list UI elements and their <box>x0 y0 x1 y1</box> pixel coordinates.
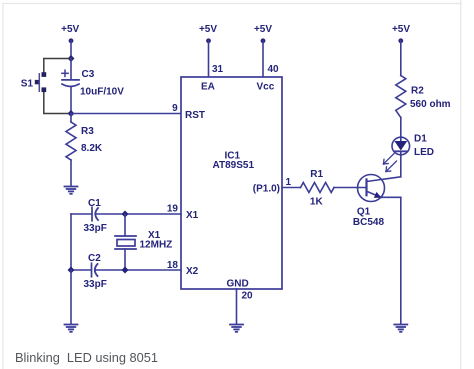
capacitor C2 <box>71 253 107 290</box>
resistor R1 <box>301 169 335 208</box>
svg-text:R3: R3 <box>81 126 94 137</box>
svg-text:Q1: Q1 <box>357 206 371 217</box>
wire GND pin 20 to ground <box>236 289 238 324</box>
svg-text:+5V: +5V <box>199 24 217 35</box>
node X1 (crystal top junction) <box>122 211 129 218</box>
power +5V (R2 rail) <box>392 24 410 43</box>
wire R1 to Q1 base <box>334 187 367 189</box>
wire oscillator left rail <box>70 214 72 270</box>
wire +5V to Vcc pin <box>262 41 264 78</box>
ground (oscillator rail) <box>65 325 78 332</box>
node X2 (crystal bottom junction) <box>122 267 129 274</box>
svg-text:D1: D1 <box>414 133 427 144</box>
power +5V (Vcc pin 40) <box>254 24 272 43</box>
wire left rail to ground <box>70 270 72 324</box>
svg-text:18: 18 <box>167 260 179 271</box>
svg-text:Vcc: Vcc <box>257 81 275 92</box>
svg-text:X2: X2 <box>186 266 199 277</box>
svg-text:(P1.0): (P1.0) <box>253 184 280 195</box>
svg-text:R1: R1 <box>310 169 323 180</box>
wire Q1 emitter to ground <box>400 197 402 323</box>
wire Q1 collector to LED <box>400 155 402 177</box>
resistor R2 <box>396 76 451 118</box>
svg-text:R2: R2 <box>411 86 424 97</box>
svg-text:10uF/10V: 10uF/10V <box>80 87 124 98</box>
svg-text:C3: C3 <box>82 69 95 80</box>
svg-text:33pF: 33pF <box>84 279 107 290</box>
ground (IC GND) <box>230 325 243 332</box>
svg-text:9: 9 <box>172 103 178 114</box>
svg-text:8.2K: 8.2K <box>81 143 103 154</box>
LED D1 <box>384 133 435 171</box>
wire RST node to IC pin 9 <box>71 113 181 115</box>
svg-text:C1: C1 <box>88 198 101 209</box>
capacitor C3 <box>62 59 124 114</box>
svg-text:EA: EA <box>201 81 215 92</box>
capacitor C1 <box>71 198 107 234</box>
wire R2 to LED <box>400 118 402 138</box>
resistor R3 <box>66 114 103 186</box>
svg-text:33pF: 33pF <box>84 223 107 234</box>
svg-text:20: 20 <box>242 290 254 301</box>
svg-text:Blinking LED using 8051: Blinking LED using 8051 <box>15 350 158 365</box>
svg-text:+5V: +5V <box>254 24 272 35</box>
svg-text:S1: S1 <box>21 79 34 90</box>
svg-text:LED: LED <box>414 147 434 158</box>
ground (emitter) <box>394 325 407 332</box>
IC IC1 AT89S51 <box>181 77 282 290</box>
svg-text:+5V: +5V <box>61 24 79 35</box>
svg-text:BC548: BC548 <box>353 217 385 228</box>
wire P1.0 to R1 <box>282 187 301 189</box>
svg-text:1K: 1K <box>310 197 324 208</box>
node A (S1/C3 top junction) <box>68 55 75 62</box>
wire +5V to node A <box>70 41 72 59</box>
svg-text:AT89S51: AT89S51 <box>213 160 255 171</box>
transistor Q1 BC548 <box>353 175 401 229</box>
svg-text:RST: RST <box>185 110 205 121</box>
crystal X1 12MHZ <box>115 214 172 270</box>
svg-text:19: 19 <box>167 204 179 215</box>
svg-text:40: 40 <box>268 64 280 75</box>
power +5V (reset rail) <box>61 24 79 43</box>
wire +5V to R2 <box>400 41 402 76</box>
svg-text:12MHZ: 12MHZ <box>140 240 173 251</box>
svg-text:GND: GND <box>227 279 249 290</box>
svg-text:560 ohm: 560 ohm <box>410 99 451 110</box>
wire C2 to IC pin X2 <box>96 269 182 271</box>
wire +5V to EA pin <box>208 41 210 78</box>
svg-text:C2: C2 <box>88 253 101 264</box>
node RST (C3/R3/S1 junction) <box>68 110 75 117</box>
node C2 left junction <box>68 267 75 274</box>
switch S1 <box>21 59 71 114</box>
wire C1 to IC pin X1 <box>96 213 181 215</box>
ground (below R3) <box>65 187 78 194</box>
svg-text:1: 1 <box>286 177 292 188</box>
svg-text:+5V: +5V <box>392 24 410 35</box>
power +5V (EA pin 31) <box>199 24 217 43</box>
svg-text:31: 31 <box>212 64 224 75</box>
svg-text:X1: X1 <box>186 210 199 221</box>
